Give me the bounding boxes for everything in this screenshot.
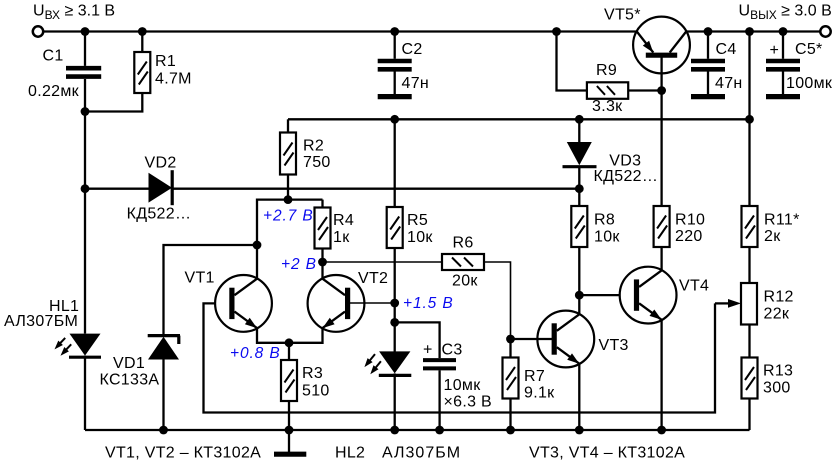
svg-text:КД522…: КД522… (594, 168, 659, 185)
caption HL2 type (335, 445, 461, 462)
svg-text:+: + (770, 42, 780, 59)
output terminal (820, 26, 830, 36)
svg-text:R6: R6 (453, 235, 474, 252)
junction VT3 base / R7 (506, 335, 515, 344)
svg-text:VT3: VT3 (599, 337, 629, 354)
potentiometer R12 (741, 283, 794, 358)
transistor VT3 (537, 311, 628, 368)
junction left branch at VD2 (81, 184, 90, 193)
wire VT1 collector (256, 245, 258, 279)
svg-text:1к: 1к (333, 229, 350, 246)
wire top rail left segment (43, 30, 638, 32)
svg-text:C3: C3 (442, 341, 463, 358)
resistor R13 (742, 358, 794, 431)
svg-text:R2: R2 (303, 138, 324, 155)
svg-text:R13: R13 (763, 363, 793, 380)
resistor R11 (742, 119, 800, 283)
svg-text:VD3: VD3 (609, 152, 641, 169)
input terminal (33, 26, 43, 36)
svg-text:C2: C2 (402, 41, 423, 58)
junction R2 bottom / +2.7V node (284, 195, 293, 204)
node +1.5V label (403, 295, 454, 312)
junction C3 branch (390, 318, 399, 327)
wire VT4 base (579, 294, 636, 296)
wire VD2 anode (85, 188, 149, 190)
node +2V label (281, 256, 317, 273)
svg-text:R5: R5 (407, 212, 428, 229)
svg-text:VD2: VD2 (145, 155, 177, 172)
svg-text:9.1к: 9.1к (524, 384, 555, 401)
junction ground rail HL2 (390, 426, 399, 435)
svg-text:+0.8 В: +0.8 В (230, 345, 281, 362)
caption VT3 VT4 type (529, 445, 685, 462)
junction top rail at C4 (704, 27, 713, 36)
transistor VT5 (604, 7, 690, 74)
wire HL1 cathode to ground rail (84, 356, 86, 430)
svg-text:VT4: VT4 (679, 278, 709, 295)
svg-text:4.7M: 4.7M (155, 71, 192, 88)
junction emitters / R3 (285, 338, 294, 347)
resistor R10 (654, 206, 706, 270)
svg-text:+2 В: +2 В (281, 256, 317, 273)
wire R6 left segment (323, 261, 443, 263)
resistor R2 (280, 119, 331, 199)
svg-text:100мк: 100мк (786, 75, 833, 92)
svg-text:VD1: VD1 (113, 355, 145, 372)
R12 wiper arrow (715, 299, 741, 308)
wire C3 top (395, 322, 440, 358)
resistor R4 (315, 200, 355, 279)
junction VT1 collector / VD1 (253, 241, 262, 250)
wire node to VD1 cathode (164, 245, 258, 336)
wire bottom ground rail (85, 429, 750, 431)
wire VT3 emitter to ground rail (578, 364, 580, 430)
svg-text:10мк: 10мк (444, 377, 482, 394)
resistor R5 (387, 119, 434, 351)
caption VT1 VT2 type (105, 445, 261, 462)
C2 ground bar (378, 94, 412, 99)
svg-text:VT1: VT1 (185, 270, 215, 287)
wire emitters VT1-VT2 (257, 328, 323, 343)
capacitor C3 (423, 341, 492, 430)
junction R9 / VT5 base (657, 86, 666, 95)
transistor VT1 (185, 270, 272, 332)
svg-text:АЛ307БМ: АЛ307БМ (4, 313, 78, 330)
node +2.7V label (263, 208, 314, 225)
svg-text:10к: 10к (407, 229, 433, 246)
junction R8 / VT4 base (575, 291, 584, 300)
wire +2.7V node (257, 200, 323, 245)
capacitor C5 (766, 32, 833, 95)
junction mid rail at R5 (390, 115, 399, 124)
svg-text:220: 220 (675, 228, 703, 245)
svg-text:300: 300 (763, 380, 791, 397)
LED HL2 (364, 351, 411, 430)
svg-text:C5*: C5* (795, 41, 823, 58)
junction ground rail R7 (506, 426, 515, 435)
resistor R1 (85, 32, 192, 112)
junction +2V node / R6 (318, 258, 327, 267)
svg-text:+1.5 В: +1.5 В (403, 295, 454, 312)
feedback wire VT1 base to R12 wiper (204, 303, 716, 412)
svg-text:R1: R1 (155, 53, 176, 70)
svg-text:47н: 47н (715, 75, 743, 92)
svg-text:+: + (423, 342, 433, 359)
junction C1/R1 bottom (81, 107, 90, 116)
svg-text:АЛ307БМ: АЛ307БМ (382, 445, 461, 462)
wire R6 right segment to VT3 base node (484, 262, 511, 339)
label Uvyx >= 3.0 V (739, 3, 832, 23)
junction top rail at C5 (779, 27, 788, 36)
junction VD2 line / VD3 / R8 (575, 184, 584, 193)
transistor VT4 (620, 267, 710, 324)
wire top rail to mid rail at x=749.5 (748, 32, 750, 120)
svg-text:R3: R3 (302, 365, 323, 382)
svg-text:C4: C4 (716, 41, 737, 58)
svg-text:20к: 20к (452, 273, 478, 290)
diode VD3 (563, 119, 659, 188)
svg-text:R10: R10 (675, 212, 705, 229)
junction ground rail VT4 emitter (657, 426, 666, 435)
junction top rail at R1 (138, 27, 147, 36)
svg-text:R4: R4 (333, 212, 354, 229)
wire VT3 base (511, 338, 555, 340)
svg-text:R11*: R11* (764, 212, 800, 229)
svg-text:R8: R8 (594, 212, 615, 229)
junction top rail at R11 branch (745, 27, 754, 36)
resistor R8 (571, 189, 620, 315)
svg-text:2к: 2к (764, 228, 781, 245)
svg-text:750: 750 (303, 154, 331, 171)
resistor R7 (503, 339, 556, 430)
diode VD2 (127, 155, 192, 223)
capacitor C1 (28, 32, 101, 112)
junction top rail at C2 (390, 27, 399, 36)
svg-text:510: 510 (302, 383, 330, 400)
LED HL1 (4, 298, 101, 357)
svg-text:10к: 10к (594, 229, 620, 246)
svg-text:22к: 22к (764, 306, 790, 323)
svg-text:R9: R9 (596, 62, 617, 79)
junction VT2 base node +1.5V (390, 299, 399, 308)
svg-text:HL2: HL2 (335, 445, 365, 462)
C4 ground bar (691, 94, 725, 99)
wire mid rail (288, 118, 750, 120)
junction ground rail VT3 emitter (575, 426, 584, 435)
svg-text:0.22мк: 0.22мк (28, 83, 80, 100)
wire left branch down to HL1 (84, 112, 86, 334)
junction top rail at C1 (81, 27, 90, 36)
svg-text:C1: C1 (43, 48, 64, 65)
svg-text:КС133А: КС133А (100, 371, 160, 388)
svg-text:VT1, VT2 – КТ3102А: VT1, VT2 – КТ3102А (105, 445, 261, 462)
label Uvx >= 3.1 V (33, 3, 115, 23)
svg-text:3.3к: 3.3к (592, 98, 623, 115)
wire VT5 base down to R10 (660, 56, 662, 207)
ground symbol (274, 430, 306, 454)
junction ground rail VD1 (159, 426, 168, 435)
zener VD1 (100, 336, 181, 430)
svg-text:КД522…: КД522… (127, 206, 192, 223)
capacitor C2 (378, 32, 429, 95)
svg-text:VT3, VT4 – КТ3102А: VT3, VT4 – КТ3102А (529, 445, 685, 462)
wire VD2 cathode to VD3 cathode node (172, 188, 579, 190)
svg-text:VT2: VT2 (358, 270, 388, 287)
svg-text:VT5*: VT5* (604, 7, 641, 24)
junction top rail at R9 (552, 27, 561, 36)
node +0.8V label (230, 345, 281, 362)
resistor R6 (442, 235, 484, 290)
transistor VT2 (308, 270, 389, 332)
resistor R3 (281, 343, 330, 430)
junction mid rail at R11 (745, 115, 754, 124)
junction mid rail at VD3 (575, 115, 584, 124)
junction ground rail C3 (435, 426, 444, 435)
wire VT2 base (347, 302, 395, 304)
wire top rail right segment (686, 30, 821, 32)
svg-text:R7: R7 (524, 368, 545, 385)
svg-text:+2.7 В: +2.7 В (263, 208, 314, 225)
C5 ground bar (766, 94, 800, 99)
junction ground rail R3 (285, 426, 294, 435)
capacitor C4 (691, 32, 743, 95)
resistor R9 (557, 32, 662, 116)
svg-text:R12: R12 (764, 288, 794, 305)
svg-text:47н: 47н (402, 75, 430, 92)
wire VT4 emitter to ground rail (660, 320, 662, 430)
svg-text:×6.3 В: ×6.3 В (444, 393, 493, 410)
